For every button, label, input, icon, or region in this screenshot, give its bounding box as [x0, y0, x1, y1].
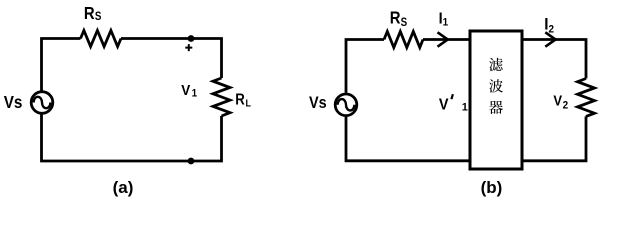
- label RS (circuit a): [84, 4, 101, 23]
- plus sign (circuit a): [185, 44, 192, 51]
- current arrow I1: [438, 32, 448, 46]
- svg-text:V: V: [181, 83, 190, 100]
- filter box text: character QI (device): [489, 101, 503, 114]
- wire: source top to top-left corner to Rs (a): [42, 39, 81, 91]
- svg-text:S: S: [95, 11, 102, 24]
- svg-text:R: R: [84, 4, 95, 23]
- label (b): [481, 178, 503, 197]
- wire: load bottom to bottom rail right of box (b): [524, 116, 587, 160]
- wire: source top to top-left corner to Rs (b): [346, 40, 384, 93]
- voltage source Vs (circuit a): [31, 92, 53, 114]
- wire: filter box to top-right corner down to load (b): [524, 40, 587, 79]
- svg-text:1: 1: [192, 88, 198, 100]
- svg-text:R: R: [235, 92, 245, 109]
- filter box text: character BO (wave): [489, 79, 503, 92]
- label Vs (circuit a): [4, 92, 23, 112]
- load resistor (circuit b): [578, 79, 595, 117]
- label V2 (circuit b): [553, 93, 568, 112]
- label V'1 (circuit b): [439, 96, 449, 114]
- resistor RS (circuit b): [384, 32, 423, 48]
- junction node top (circuit a): [188, 35, 195, 42]
- label Vs (circuit b): [309, 94, 327, 112]
- svg-text:R: R: [390, 8, 401, 27]
- svg-text:2: 2: [549, 24, 555, 36]
- svg-text:Vs: Vs: [4, 92, 23, 112]
- wire: bottom rail left of box to source bottom (b): [346, 117, 469, 161]
- svg-text:2: 2: [563, 100, 569, 112]
- svg-text:1: 1: [462, 102, 468, 114]
- wire: Rs to top-right corner down to RL (a): [121, 39, 222, 79]
- label RL (circuit a): [235, 92, 251, 110]
- resistor RL (circuit a): [213, 78, 230, 116]
- label (a): [113, 178, 134, 197]
- wire: Rs to filter box (b): [423, 38, 469, 41]
- current arrow I2: [545, 32, 555, 46]
- voltage source Vs (circuit b): [335, 94, 357, 116]
- prime mark of V'1: [451, 94, 453, 99]
- label I1: [439, 10, 449, 29]
- svg-text:S: S: [401, 16, 408, 29]
- svg-text:L: L: [246, 98, 251, 110]
- label RS (circuit b): [390, 8, 407, 29]
- svg-text:1: 1: [443, 17, 449, 29]
- resistor RS (circuit a): [81, 31, 122, 47]
- wire: RL bottom to bottom rail to source bottom (a): [42, 115, 222, 162]
- filter box text: character LU (filter): [489, 58, 503, 71]
- filter box (rectangle): [470, 31, 522, 169]
- svg-text:V: V: [553, 93, 562, 109]
- junction node bottom (circuit a): [188, 158, 195, 165]
- svg-text:Vs: Vs: [309, 94, 327, 112]
- svg-text:(b): (b): [481, 178, 503, 197]
- svg-text:(a): (a): [113, 178, 134, 197]
- label I2: [544, 15, 554, 36]
- svg-text:V: V: [439, 96, 449, 114]
- label V1 (circuit a): [181, 83, 197, 100]
